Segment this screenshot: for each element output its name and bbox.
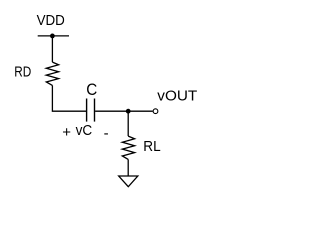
wire rail to RD top [51,36,53,62]
wire capacitor to vOUT terminal [95,110,153,112]
wire RL bottom to ground [127,159,129,176]
ground [119,176,138,187]
junction dot on VDD rail [50,34,55,39]
svg-text:-: - [104,125,109,142]
power rail VDD [38,35,69,37]
capacitor C right plate [94,99,96,122]
svg-text:vC: vC [76,122,93,139]
wire node to RL top [127,111,129,136]
svg-text:RD: RD [14,64,31,81]
resistor RD [46,62,58,85]
wire RD bottom to capacitor (corner) [52,85,86,111]
resistor RL [122,136,134,159]
capacitor C left plate [86,99,88,122]
terminal vOUT (open circle) [153,109,158,114]
svg-text:C: C [86,80,97,99]
junction dot at output node [126,109,131,114]
svg-text:VDD: VDD [37,12,65,29]
svg-text:vOUT: vOUT [157,88,197,105]
svg-text:+: + [62,124,71,141]
svg-text:RL: RL [143,138,160,155]
